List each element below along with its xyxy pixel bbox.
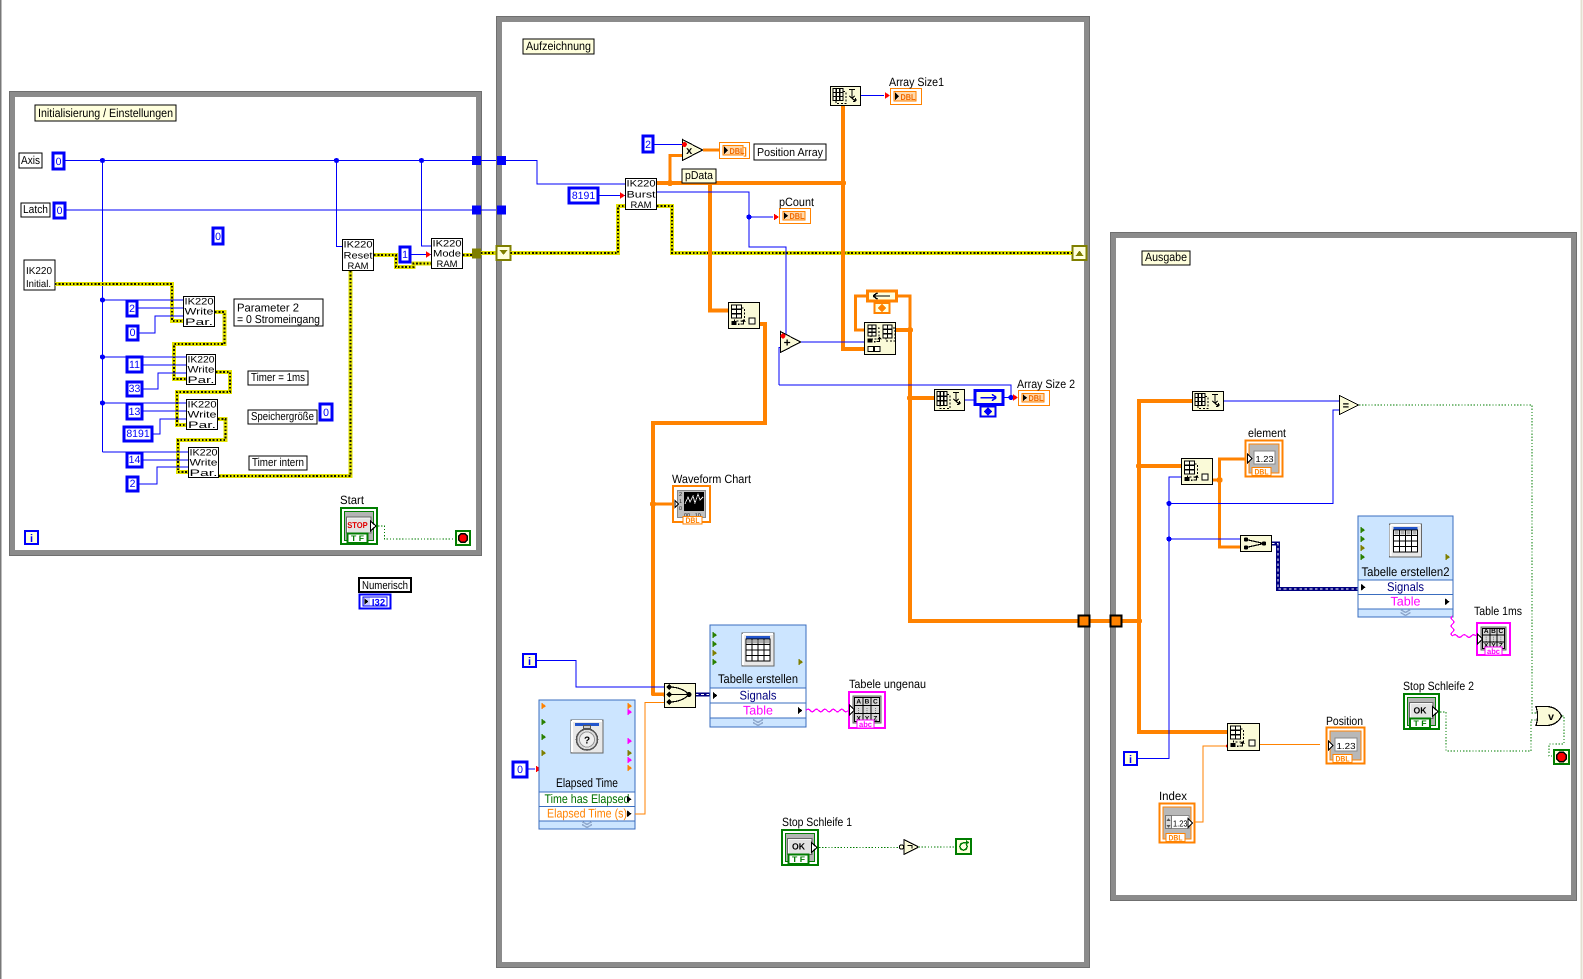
svg-text:Speichergröße: Speichergröße xyxy=(251,411,314,423)
svg-text:IK220: IK220 xyxy=(627,178,656,189)
wire Axis branch to Mode RAM xyxy=(422,161,432,247)
node Array Size 1 xyxy=(831,87,861,106)
wire orange up to Array Size 3 xyxy=(1139,401,1192,621)
wire Start to condition (dotted) xyxy=(378,526,455,539)
constant 2b xyxy=(127,477,138,491)
svg-text:RAM: RAM xyxy=(348,260,369,271)
svg-text:Elapsed Time (s): Elapsed Time (s) xyxy=(547,807,627,821)
wire index array out to chart/merge xyxy=(653,324,765,695)
squiggle wire Table2 horizontal xyxy=(1453,635,1476,638)
indicator Table 1ms xyxy=(1477,623,1510,656)
indicator Array Size 2 xyxy=(1019,391,1050,406)
junction orange trunk xyxy=(1136,618,1142,624)
label Numerisch xyxy=(359,578,411,592)
junction orange idx xyxy=(1136,463,1142,469)
svg-text:Axis: Axis xyxy=(21,155,40,167)
comment Timer intern xyxy=(249,456,307,470)
svg-text:DBL: DBL xyxy=(1029,393,1044,403)
svg-text:DBL: DBL xyxy=(1336,755,1350,764)
wire equals out (dotted) xyxy=(1359,405,1536,713)
wire Axis (blue) xyxy=(64,160,472,162)
wire Axis branch vertical x102 xyxy=(102,161,104,453)
svg-text:2: 2 xyxy=(645,139,651,151)
wire i up xyxy=(1138,477,1181,759)
svg-text:Position Array: Position Array xyxy=(757,147,823,159)
svg-text:T F: T F xyxy=(1414,719,1427,728)
constant 0 (elapsed) xyxy=(513,762,527,777)
svg-text:]: ] xyxy=(744,147,747,158)
label Stop Schleife 2 xyxy=(1403,679,1474,693)
subVI IK220 Reset RAM xyxy=(343,239,374,271)
svg-text:IK220: IK220 xyxy=(344,239,373,250)
wire feedback loop left xyxy=(856,296,867,330)
wire OR to condition xyxy=(1549,716,1564,756)
label IK220 Initial. xyxy=(24,260,55,290)
svg-text:Par.: Par. xyxy=(185,316,213,327)
junction Axis x421 xyxy=(419,158,424,163)
wire Index to Index Array R2 xyxy=(1195,746,1227,822)
label Table 1ms xyxy=(1474,604,1522,618)
wire Axis branch to Reset RAM xyxy=(337,161,343,247)
svg-text:C: C xyxy=(873,699,878,706)
svg-text:Index: Index xyxy=(1159,789,1187,803)
wire const 8191 to WP3 xyxy=(152,419,186,434)
equals node xyxy=(1340,396,1359,415)
junction pData 3 xyxy=(840,180,846,186)
svg-text:Time has Elapsed: Time has Elapsed xyxy=(545,792,630,806)
NOT gate xyxy=(899,840,918,855)
indicator Waveform Chart xyxy=(673,486,710,525)
svg-text:A: A xyxy=(1484,628,1489,635)
wire i to merge xyxy=(537,661,664,688)
constant 13 xyxy=(127,404,142,419)
svg-text:DBL: DBL xyxy=(1255,468,1269,477)
wire NOT to condition xyxy=(919,846,956,848)
indicator Tabele ungenau xyxy=(849,692,885,729)
add node xyxy=(781,332,801,353)
wire const 13 to WP3 xyxy=(142,410,186,412)
svg-text:Start: Start xyxy=(340,493,365,507)
wire to waveform chart xyxy=(653,503,672,506)
loop 2 iteration terminal i xyxy=(523,654,536,668)
label pCount xyxy=(779,195,815,209)
while loop 2 border (Aufzeichnung) xyxy=(497,17,1090,968)
loop 1 iteration terminal i xyxy=(25,531,38,545)
wire to WP1 in1 xyxy=(103,299,184,301)
svg-text:OK: OK xyxy=(1414,706,1427,716)
node Index Array R1 xyxy=(1182,459,1213,485)
junction arr size 2 xyxy=(1008,395,1013,400)
svg-text:1.23: 1.23 xyxy=(1256,454,1274,464)
label element xyxy=(1248,426,1287,440)
svg-text:Timer intern: Timer intern xyxy=(252,457,304,469)
svg-text:Elapsed Time: Elapsed Time xyxy=(556,776,618,790)
control Stop Schleife 1 (OK button) xyxy=(782,830,818,865)
coercion pCount xyxy=(774,214,779,221)
junction WP3 axis xyxy=(100,400,105,405)
wire feedback blue out xyxy=(1003,397,1012,399)
error wire IK220 Initial to Write Par 1 xyxy=(55,284,183,321)
express VI Tabelle erstellen xyxy=(710,625,806,727)
wire orange to Index Array R1 xyxy=(1139,464,1181,468)
wire pData trunk (orange array) xyxy=(657,181,843,185)
label Start xyxy=(340,493,365,507)
subVI IK220 Write Par 3 xyxy=(187,398,218,430)
shift register right (error) xyxy=(1073,246,1087,260)
junction replace out xyxy=(907,327,913,333)
svg-text:1: 1 xyxy=(679,499,682,505)
dynamic wire select to Tabelle erstellen2 xyxy=(1272,544,1358,590)
junction pData 1 xyxy=(667,180,673,186)
error wire WP3 to WP4 xyxy=(178,419,226,472)
junction WP1 axis xyxy=(100,297,105,302)
svg-text:Parameter 2: Parameter 2 xyxy=(237,303,299,315)
select node xyxy=(1241,536,1272,552)
svg-text:2: 2 xyxy=(130,478,136,490)
coercion Array Size1 xyxy=(885,92,890,99)
svg-text:?: ? xyxy=(584,736,590,747)
svg-text:B: B xyxy=(865,699,870,706)
subVI IK220 Write Par 4 xyxy=(189,446,219,478)
tunnel Latch out xyxy=(472,206,481,215)
svg-text:0: 0 xyxy=(130,327,136,339)
svg-text:1: 1 xyxy=(402,249,408,261)
wire feedback loop right xyxy=(897,296,910,330)
svg-text:= 0 Stromeingang: = 0 Stromeingang xyxy=(237,314,320,326)
svg-text:0: 0 xyxy=(56,156,62,168)
constant 2 (multiply) xyxy=(643,136,653,152)
wire orange between loops xyxy=(1089,619,1111,623)
svg-text:Table 1ms: Table 1ms xyxy=(1474,604,1522,618)
loop 1 condition terminal xyxy=(456,531,470,545)
wire Axis between loops xyxy=(481,160,497,162)
svg-text:0: 0 xyxy=(679,506,682,512)
node Index Array R2 xyxy=(1228,724,1260,751)
svg-text:0: 0 xyxy=(215,231,221,243)
coercion dot Burst RAM xyxy=(620,192,625,199)
svg-text:v: v xyxy=(1548,711,1554,723)
express VI Tabelle erstellen2 xyxy=(1358,516,1453,617)
subVI IK220 Write Par 2 xyxy=(187,353,216,385)
constant 2 xyxy=(127,301,137,316)
svg-text:B: B xyxy=(1491,628,1496,635)
comment Timer = 1ms xyxy=(248,371,308,385)
loop 3 iteration terminal i xyxy=(1124,752,1137,766)
svg-text:Burst: Burst xyxy=(627,188,657,199)
error wire Reset to Mode RAM xyxy=(374,255,431,267)
svg-text:RAM: RAM xyxy=(437,258,458,269)
svg-text:2: 2 xyxy=(129,303,135,315)
wire OK2 to OR (dotted) xyxy=(1440,712,1536,751)
wire Index Array R2 to Position xyxy=(1260,744,1320,746)
svg-text:pCount: pCount xyxy=(779,195,815,209)
svg-text:Par.: Par. xyxy=(190,467,218,478)
svg-text:0: 0 xyxy=(57,205,63,217)
wire add in2 xyxy=(779,348,781,386)
wire 0 to Elapsed Time xyxy=(527,768,535,770)
svg-text:2: 2 xyxy=(679,492,682,498)
junction chart xyxy=(650,501,656,507)
control Index xyxy=(1160,804,1195,843)
wire pCount down to add xyxy=(749,217,786,336)
label Index xyxy=(1159,789,1187,803)
svg-text:=: = xyxy=(1343,400,1349,412)
svg-text:IK220: IK220 xyxy=(26,266,52,277)
squiggle wire Table2 vertical xyxy=(1451,616,1454,636)
constant 0 Speicher xyxy=(320,404,332,420)
label Position xyxy=(1326,714,1363,728)
subVI IK220 Write Par 1 xyxy=(184,295,215,327)
wire Axis into Burst RAM xyxy=(506,161,625,185)
svg-text:Aufzeichnung: Aufzeichnung xyxy=(526,39,591,53)
wire multiply to Position Array ind xyxy=(703,149,719,152)
error wire Mode RAM to tunnel xyxy=(463,253,472,257)
wire pData down to Index Array xyxy=(710,183,728,311)
svg-text:Latch: Latch xyxy=(23,204,48,216)
junction WP2 axis xyxy=(100,354,105,359)
svg-text:11: 11 xyxy=(129,359,140,371)
junction pData 2 xyxy=(707,180,713,186)
svg-text:pData: pData xyxy=(685,170,714,182)
svg-text:abc: abc xyxy=(1487,647,1501,656)
svg-text:i: i xyxy=(30,533,33,545)
junction i select xyxy=(1166,536,1171,541)
label Ausgabe xyxy=(1142,250,1190,265)
svg-text:8191: 8191 xyxy=(572,190,596,202)
comment Parameter 2 = 0 Stromeingang xyxy=(234,299,323,326)
svg-text:I32: I32 xyxy=(372,598,385,609)
label Latch xyxy=(21,203,50,217)
svg-text:Par.: Par. xyxy=(188,419,216,430)
svg-text:T F: T F xyxy=(351,534,364,543)
subVI IK220 Mode RAM xyxy=(432,237,463,269)
label Axis xyxy=(19,153,42,168)
svg-text:element: element xyxy=(1248,426,1287,440)
coercion dot multiply xyxy=(682,142,687,147)
svg-text:Tabele ungenau: Tabele ungenau xyxy=(849,677,926,691)
tunnel error out (olive) xyxy=(472,249,481,259)
svg-text:1.23: 1.23 xyxy=(1173,819,1188,829)
svg-text:Stop Schleife 1: Stop Schleife 1 xyxy=(782,815,852,829)
svg-text:i: i xyxy=(1129,754,1132,766)
svg-text:Table: Table xyxy=(1391,595,1421,609)
coercion Array Size 2 ind xyxy=(1013,394,1018,401)
error wire main left xyxy=(511,206,626,253)
svg-text:C: C xyxy=(1498,628,1503,635)
constant 1 xyxy=(400,247,410,262)
comment Speichergroesse xyxy=(248,410,317,424)
svg-text:DBL: DBL xyxy=(790,211,805,221)
constant 0b xyxy=(127,326,138,340)
wire add out to Replace xyxy=(801,341,864,343)
squiggle wire Table to Tabele ungenau xyxy=(806,709,848,712)
svg-text:DBL: DBL xyxy=(730,146,745,156)
window right edge line xyxy=(1581,0,1583,979)
svg-text:DBL: DBL xyxy=(901,92,916,102)
svg-text:Array Size1: Array Size1 xyxy=(889,75,944,89)
node Array Size 2 xyxy=(935,390,965,411)
indicator Position xyxy=(1327,728,1365,764)
constant Latch 0 xyxy=(54,203,65,218)
junction array size 2 branch xyxy=(907,395,913,401)
wire element down to select xyxy=(1220,480,1241,547)
indicator element xyxy=(1246,441,1283,477)
constant 8191 (Burst) xyxy=(569,188,598,203)
wire Elapsed Time (s) to merge xyxy=(635,703,664,815)
tunnel Axis out xyxy=(472,156,481,165)
wire orange down to Index Array R2 xyxy=(1139,621,1227,732)
wire const 14 to WP4 xyxy=(142,459,188,461)
error wire WP2 to WP3 xyxy=(177,372,230,425)
control Start (stop button) xyxy=(341,508,377,544)
wire const 0 to WP1 xyxy=(138,316,183,333)
label Initialisierung / Einstellungen xyxy=(35,105,176,121)
svg-text:Stop Schleife 2: Stop Schleife 2 xyxy=(1403,679,1474,693)
svg-text:Timer = 1ms: Timer = 1ms xyxy=(251,372,305,384)
wire to WP2 in1 xyxy=(103,356,187,358)
svg-text:Signals: Signals xyxy=(1387,580,1424,594)
svg-text:Par.: Par. xyxy=(188,374,215,385)
feedback node (orange) xyxy=(868,291,897,313)
error wire main right xyxy=(657,206,1072,253)
wire arr size 2 out xyxy=(965,399,974,401)
wire orange trunk right loop xyxy=(1121,619,1139,623)
wire const 11 to WP2 xyxy=(142,364,186,366)
svg-text:Reset: Reset xyxy=(344,249,373,260)
svg-text:OK: OK xyxy=(792,842,805,852)
svg-text:13: 13 xyxy=(129,406,141,418)
svg-text:Tabelle erstellen: Tabelle erstellen xyxy=(718,672,798,686)
svg-text:STOP: STOP xyxy=(347,520,368,530)
svg-text:Numerisch: Numerisch xyxy=(362,580,408,592)
svg-text:⋮: ⋮ xyxy=(864,708,870,715)
svg-text:i: i xyxy=(528,656,531,668)
svg-text:Table: Table xyxy=(743,704,773,718)
indicator Numerisch I32 xyxy=(360,595,391,609)
svg-text:Initialisierung / Einstellunge: Initialisierung / Einstellungen xyxy=(38,106,173,120)
wire const 2 to WP1 xyxy=(137,307,183,309)
multiply node xyxy=(683,140,703,161)
svg-text:DBL: DBL xyxy=(1169,834,1183,843)
coercion dot Mode RAM xyxy=(426,251,431,258)
wire const 1 to Mode RAM xyxy=(410,254,431,256)
wire const 33 to WP2 xyxy=(142,373,186,389)
wire element out xyxy=(1213,459,1245,480)
svg-text:1.23: 1.23 xyxy=(1337,741,1356,751)
junction pCount xyxy=(746,214,751,219)
while loop 1 border (Initialisierung) xyxy=(10,92,482,556)
label pData xyxy=(682,169,716,183)
error wire between loops xyxy=(481,251,497,255)
loop 3 condition terminal xyxy=(1554,750,1569,764)
svg-text:Signals: Signals xyxy=(740,689,777,703)
wire Burst RAM to pCount xyxy=(657,192,773,217)
merge signals node xyxy=(665,684,696,708)
svg-text:Position: Position xyxy=(1326,714,1363,728)
coercion Index R2 xyxy=(1226,744,1231,749)
wire Latch between loops xyxy=(481,209,497,211)
svg-text:abc: abc xyxy=(859,720,873,729)
label Position Array xyxy=(754,144,826,160)
wire to equals in2 xyxy=(1169,410,1339,504)
tunnel orange out xyxy=(1079,616,1090,627)
node Replace Array Subset xyxy=(865,323,896,355)
svg-text:0: 0 xyxy=(323,407,329,419)
wire to select in1 xyxy=(1169,538,1240,540)
junction element xyxy=(1216,477,1222,483)
wire pData to Array Size / Replace xyxy=(843,105,864,349)
loop 2 condition terminal (continue) xyxy=(956,839,971,854)
constant 8191 xyxy=(124,427,152,441)
label Tabele ungenau xyxy=(849,677,926,691)
svg-text:Array Size 2: Array Size 2 xyxy=(1017,377,1075,391)
svg-text:DBL: DBL xyxy=(686,516,700,525)
svg-text:Tabelle erstellen2: Tabelle erstellen2 xyxy=(1362,565,1450,579)
svg-text:8191: 8191 xyxy=(126,428,150,440)
svg-text:x: x xyxy=(686,145,693,157)
control Stop Schleife 2 (OK button) xyxy=(1404,694,1439,729)
junction Axis x336 xyxy=(334,158,339,163)
svg-text:T F: T F xyxy=(792,855,805,864)
wire to WP3 in1 xyxy=(103,402,187,404)
label Stop Schleife 1 xyxy=(782,815,852,829)
constant 33 xyxy=(127,382,142,396)
svg-text:33: 33 xyxy=(129,383,141,395)
constant 11 xyxy=(127,357,142,372)
svg-text:Initial.: Initial. xyxy=(26,279,51,290)
express VI Elapsed Time xyxy=(539,700,635,829)
window left edge line xyxy=(0,0,2,979)
wire replace out xyxy=(896,328,910,332)
label Waveform Chart xyxy=(672,472,752,486)
error wire WP1 to WP2 xyxy=(174,312,225,379)
stopwatch glyph xyxy=(577,726,598,751)
coercion dot add xyxy=(781,334,786,339)
svg-text:Ausgabe: Ausgabe xyxy=(1145,250,1187,264)
svg-text:RAM: RAM xyxy=(631,199,652,210)
indicator pCount xyxy=(780,209,811,224)
wire const 2b to WP4 xyxy=(138,467,188,484)
wire to WP4 in1 xyxy=(103,451,189,453)
node Index Array (middle) xyxy=(729,303,760,329)
wire OK1 to NOT xyxy=(819,847,898,849)
node Array Size 3 xyxy=(1193,392,1224,411)
wire 2 to multiply xyxy=(653,144,682,146)
svg-text:A: A xyxy=(856,699,861,706)
wire to Array Size 2 node xyxy=(910,396,934,400)
indicator Array Size1 xyxy=(891,89,922,105)
svg-text:14: 14 xyxy=(129,454,141,466)
svg-text:Waveform Chart: Waveform Chart xyxy=(672,472,752,486)
wire loop back to add xyxy=(779,385,1011,398)
tunnel Axis in xyxy=(497,156,506,165)
wire 8191 to Burst RAM xyxy=(598,195,625,197)
wire orange trunk down xyxy=(910,330,1078,621)
junction i eq xyxy=(1166,501,1171,506)
tunnel orange in xyxy=(1111,616,1122,627)
shift register left (error) xyxy=(497,246,511,260)
feedback node (blue) xyxy=(975,391,1003,417)
svg-text:⋮: ⋮ xyxy=(856,708,862,715)
label Aufzeichnung xyxy=(523,39,594,54)
constant Axis 0 xyxy=(53,153,64,169)
label Array Size 2 xyxy=(1017,377,1075,391)
svg-text:⋮: ⋮ xyxy=(872,708,878,715)
label Array Size1 xyxy=(889,75,944,89)
wire Array Size 3 to equals xyxy=(1224,400,1339,402)
while loop 3 border (Ausgabe) xyxy=(1111,233,1577,901)
wire Array Size1 to ind xyxy=(861,95,884,97)
